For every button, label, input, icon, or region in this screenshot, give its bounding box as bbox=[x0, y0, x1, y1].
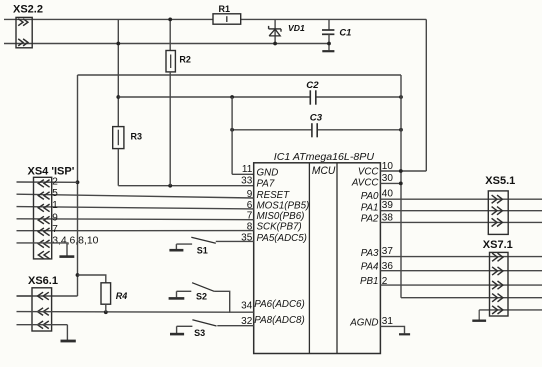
svg-text:S2: S2 bbox=[196, 292, 207, 302]
svg-text:PA1: PA1 bbox=[361, 202, 379, 213]
svg-text:SCK(PB7): SCK(PB7) bbox=[257, 221, 302, 232]
svg-text:AVCC: AVCC bbox=[351, 177, 380, 188]
svg-text:C3: C3 bbox=[310, 112, 323, 123]
svg-text:R1: R1 bbox=[219, 4, 231, 14]
svg-text:XS7.1: XS7.1 bbox=[483, 239, 513, 251]
svg-text:MIS0(PB6): MIS0(PB6) bbox=[257, 211, 305, 222]
svg-text:PA3: PA3 bbox=[361, 248, 379, 259]
svg-text:8: 8 bbox=[247, 222, 253, 233]
svg-text:PA4: PA4 bbox=[361, 261, 379, 272]
svg-text:30: 30 bbox=[382, 173, 394, 184]
svg-text:XS2.2: XS2.2 bbox=[13, 4, 43, 16]
svg-text:37: 37 bbox=[382, 246, 394, 257]
svg-text:C2: C2 bbox=[306, 80, 319, 91]
svg-text:PA6(ADC6): PA6(ADC6) bbox=[254, 299, 304, 310]
svg-text:VCC: VCC bbox=[358, 166, 380, 177]
svg-text:AGND: AGND bbox=[349, 318, 378, 329]
svg-text:7: 7 bbox=[247, 211, 253, 222]
svg-text:31: 31 bbox=[382, 316, 394, 327]
svg-text:10: 10 bbox=[382, 161, 394, 172]
svg-text:S3: S3 bbox=[194, 328, 205, 338]
svg-text:PA0: PA0 bbox=[361, 191, 379, 202]
svg-text:MCU: MCU bbox=[312, 165, 336, 177]
svg-text:XS5.1: XS5.1 bbox=[485, 175, 515, 187]
svg-text:2: 2 bbox=[52, 176, 58, 187]
svg-text:PA8(ADC8): PA8(ADC8) bbox=[254, 315, 304, 326]
svg-text:C1: C1 bbox=[339, 26, 351, 37]
svg-text:PA5(ADC5): PA5(ADC5) bbox=[257, 233, 307, 244]
svg-text:XS4 'ISP': XS4 'ISP' bbox=[28, 165, 75, 177]
svg-text:GND: GND bbox=[257, 167, 279, 178]
svg-text:PB1: PB1 bbox=[360, 276, 379, 287]
svg-text:3,4,6,8,10: 3,4,6,8,10 bbox=[52, 235, 98, 246]
svg-text:RESET: RESET bbox=[257, 190, 291, 201]
svg-text:PA2: PA2 bbox=[361, 213, 379, 224]
svg-text:XS6.1: XS6.1 bbox=[28, 275, 58, 287]
svg-text:9: 9 bbox=[52, 212, 58, 223]
svg-text:R3: R3 bbox=[131, 132, 143, 142]
svg-text:VD1: VD1 bbox=[288, 23, 305, 33]
svg-text:33: 33 bbox=[241, 176, 253, 187]
svg-text:S1: S1 bbox=[197, 246, 208, 256]
svg-text:34: 34 bbox=[241, 301, 253, 312]
svg-text:5: 5 bbox=[52, 188, 58, 199]
svg-text:9: 9 bbox=[247, 189, 253, 200]
svg-text:39: 39 bbox=[382, 200, 394, 211]
svg-text:IC1 ATmega16L-8PU: IC1 ATmega16L-8PU bbox=[274, 152, 375, 163]
svg-text:7: 7 bbox=[52, 224, 58, 235]
svg-text:11: 11 bbox=[242, 164, 253, 175]
svg-text:R2: R2 bbox=[179, 55, 191, 65]
svg-text:R4: R4 bbox=[116, 291, 128, 301]
svg-text:40: 40 bbox=[382, 189, 394, 200]
svg-text:6: 6 bbox=[247, 200, 253, 211]
svg-text:PA7: PA7 bbox=[257, 178, 275, 189]
svg-text:1: 1 bbox=[52, 200, 58, 211]
